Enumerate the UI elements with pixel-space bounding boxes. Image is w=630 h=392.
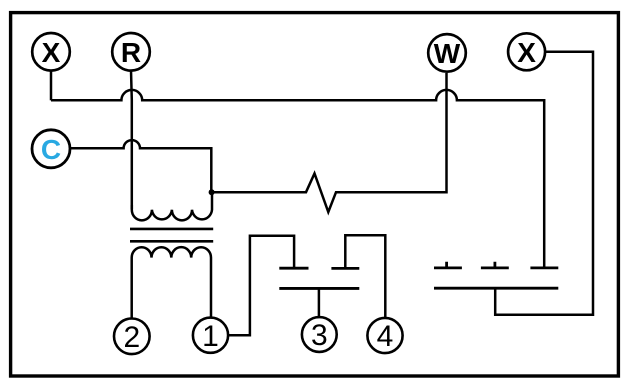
wire: terminal C lead with hop over R stem, down to junction bbox=[70, 140, 211, 190]
terminal X2 bbox=[508, 33, 545, 70]
wire: X1 horizontal bus with hops over R and W, then drop to right electrode stack bbox=[51, 90, 544, 267]
svg-text:2: 2 bbox=[123, 321, 140, 354]
terminal C (blue) bbox=[32, 130, 70, 168]
node: junction dot bbox=[209, 189, 215, 195]
wire: terminal X2 lead right, down the right side, to bottom of electrode stack bbox=[495, 52, 593, 315]
terminal 2 bbox=[114, 319, 150, 355]
capacitor element M1 right upper plate bbox=[331, 267, 359, 270]
capacitor element M1 left upper plate bbox=[279, 267, 308, 270]
transformer T1 core line lower bbox=[130, 240, 213, 243]
svg-text:R: R bbox=[121, 37, 141, 68]
svg-text:X: X bbox=[517, 37, 536, 68]
terminal 4 bbox=[367, 318, 402, 353]
wire: terminal 4 lead up and over to right plate feed of middle element bbox=[345, 235, 385, 318]
capacitor element M1 common lower plate bbox=[279, 287, 359, 290]
electrode stack E1 plate B with stub pin bbox=[481, 262, 509, 268]
svg-text:X: X bbox=[42, 37, 61, 68]
electrode stack E1 plate C bbox=[530, 266, 558, 269]
transformer T1 core line upper bbox=[130, 228, 213, 231]
svg-text:C: C bbox=[41, 134, 61, 165]
terminal 3 bbox=[302, 317, 337, 352]
electrode stack E1 common lower plate bbox=[434, 287, 558, 290]
terminal R bbox=[112, 33, 150, 71]
electrode stack E1 plate A with stub pin bbox=[434, 262, 462, 268]
transformer T1 primary winding bbox=[132, 194, 212, 221]
terminal W bbox=[428, 34, 466, 72]
wire: terminal R stem down to transformer primary bbox=[130, 71, 133, 210]
wire: stem from M1 common plate to terminal 3 bbox=[318, 288, 321, 317]
terminal X1 bbox=[32, 33, 70, 71]
svg-text:3: 3 bbox=[311, 319, 328, 352]
resistor R1 (zigzag break) with wire run from junction to W stem bbox=[212, 73, 447, 212]
svg-text:4: 4 bbox=[377, 320, 394, 353]
transformer T1 secondary winding with leads to terminals 2 and 1 bbox=[132, 247, 211, 318]
svg-text:W: W bbox=[434, 38, 461, 69]
terminal 1 bbox=[193, 318, 228, 353]
svg-text:1: 1 bbox=[202, 320, 219, 353]
wire: terminal X1 stem down bbox=[50, 71, 53, 101]
wire: terminal 1 to left plate feed of middle element bbox=[228, 236, 294, 336]
